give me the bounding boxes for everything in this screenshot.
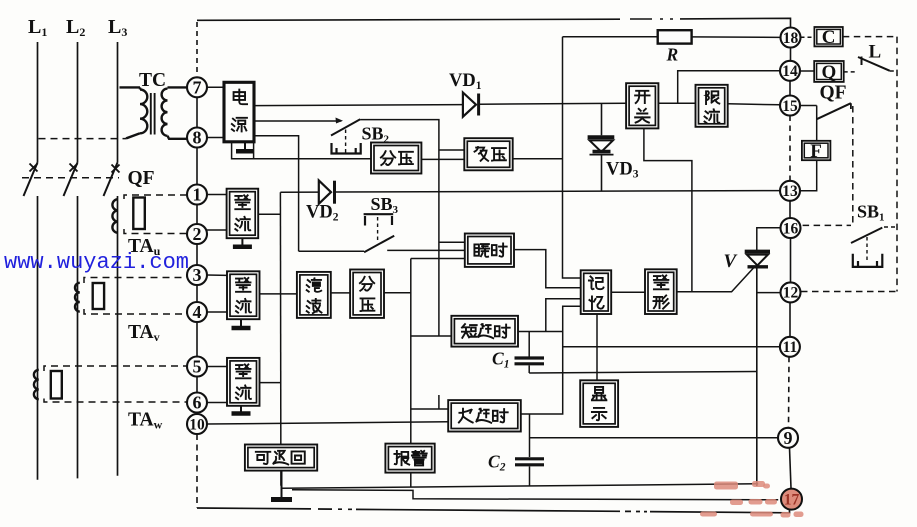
- svg-text:4: 4: [193, 302, 202, 322]
- wire: rectifier3 output: [260, 382, 281, 384]
- wire: vertical B: [410, 259, 412, 444]
- wire: TA_u dashed to node 1: [124, 195, 186, 199]
- wire: filter to divider2: [331, 292, 350, 294]
- label shaping (zheng): [654, 275, 668, 289]
- svg-text:13: 13: [782, 183, 798, 200]
- wire: C box to corner dashed: [843, 36, 897, 38]
- svg-text:SB1: SB1: [857, 202, 885, 224]
- svg-text:V: V: [724, 251, 738, 272]
- wire: node 11 line: [563, 346, 780, 348]
- breaker QF pole 2 contact x mark: [70, 164, 78, 172]
- block: voltage divider 1 box: [371, 143, 421, 174]
- wire: power to divider1: [232, 143, 371, 159]
- current transformer TA_w winding: [34, 370, 39, 399]
- node 15 terminal circle: [780, 96, 800, 116]
- block: aux contact C box: [814, 27, 842, 46]
- wire: bottom border dash-dot break 1: [318, 508, 352, 510]
- svg-text:TAv: TAv: [128, 322, 160, 344]
- block: rectifier2 box: [227, 271, 260, 319]
- wire: node 16 dashed to SB1: [803, 224, 851, 226]
- block: F box: [802, 141, 831, 160]
- wire: left column segment 2-3: [196, 244, 198, 265]
- wire: node 1 to rectifier1: [207, 194, 227, 196]
- svg-text:QF: QF: [820, 83, 847, 104]
- current transformer TA_v winding: [75, 283, 80, 312]
- svg-text:17: 17: [784, 491, 800, 508]
- block: aux contact Q box: [814, 61, 844, 82]
- svg-text:18: 18: [783, 30, 799, 47]
- svg-text:5: 5: [193, 357, 202, 377]
- wire: thyristor gate: [677, 267, 755, 292]
- pushbutton SB3 blade: [364, 236, 394, 253]
- wire: TA_u dashed to node 2: [124, 229, 186, 234]
- label rectifier2 (zheng): [236, 278, 250, 292]
- label switch (kai): [635, 91, 649, 103]
- wire: Q box dashed right: [844, 71, 857, 73]
- wire: L contact to border dash: [890, 70, 897, 72]
- block: rectifier1 box: [227, 189, 259, 239]
- wire: vertical A upper (SB2 node): [438, 150, 440, 336]
- wire: switch to current-limit: [658, 102, 695, 104]
- wire: left column segment 4-5: [196, 322, 198, 357]
- wire: SB3 to instantaneous box: [387, 249, 465, 251]
- ground below resettable: [281, 471, 283, 500]
- wire: memory to shaping: [611, 291, 645, 293]
- breaker QF linkage dashed: [22, 177, 119, 179]
- wire: undervoltage output: [513, 158, 563, 160]
- node 17 terminal circle (red highlighted): [781, 489, 802, 510]
- wire: outer box left border dashed below node 10: [196, 434, 198, 508]
- wire: node 16 to thyristor: [757, 228, 781, 250]
- svg-text:L3: L3: [108, 16, 127, 39]
- diode VD2: [319, 180, 331, 203]
- wire: right column 15-13 dashed: [789, 116, 791, 181]
- current transformer TA_u winding: [112, 199, 118, 233]
- wire: thyristor to node 12: [757, 292, 781, 294]
- node 1 terminal circle: [187, 185, 207, 205]
- svg-text:16: 16: [783, 220, 799, 237]
- label display (xian): [592, 387, 606, 400]
- wire: rectifier1 output: [258, 213, 280, 215]
- wire: QF aux dashed down: [852, 106, 854, 225]
- svg-text:VD3: VD3: [606, 160, 639, 181]
- wire: power output to SB2: [255, 120, 341, 122]
- svg-text:3: 3: [193, 265, 202, 285]
- node 2 terminal circle: [187, 224, 207, 244]
- wire: vertical A tee to instantaneous: [439, 241, 465, 243]
- svg-text:11: 11: [783, 339, 798, 356]
- label alarm (jing): [412, 451, 427, 465]
- wire: left column segment 7-8: [196, 97, 198, 127]
- wire: R to node 18: [692, 36, 780, 39]
- svg-text:TC: TC: [139, 70, 166, 91]
- svg-text:6: 6: [193, 393, 202, 413]
- ground below rectifier2: [240, 319, 242, 328]
- contact QF aux blade: [817, 103, 851, 119]
- label display (shi2): [592, 408, 606, 420]
- node 3 terminal circle: [187, 265, 207, 285]
- svg-text:F: F: [810, 141, 822, 162]
- label long-delay (yan): [476, 409, 491, 423]
- wire: rectifier2 to filter: [260, 293, 297, 295]
- wire: left column segment 6-10: [196, 413, 198, 415]
- wire: C1 bottom line to thyristor cathode: [529, 372, 757, 374]
- wire: vertical A lower stub: [411, 395, 448, 409]
- wire: right dashed border: [896, 37, 898, 292]
- wire: VD1 to switch box: [479, 102, 626, 105]
- wire: divider1 to undervoltage box: [421, 158, 464, 160]
- label undervoltage (ya): [492, 148, 506, 161]
- wire: phase L3 lower: [117, 196, 119, 476]
- wire: outer box bottom border left part: [197, 507, 311, 510]
- wire: right column 18-14: [790, 48, 792, 61]
- wire: right column 11-9 dashed: [788, 357, 791, 428]
- wire: TA_v dashed to node 4: [84, 309, 187, 314]
- resistor R: [658, 30, 692, 43]
- wire: power output to VD1: [255, 105, 462, 106]
- wire: SB1 dashed to border: [884, 226, 897, 228]
- label switch (guan): [635, 109, 649, 123]
- svg-text:C1: C1: [492, 349, 509, 371]
- wire: left column segment 1-2: [196, 205, 198, 225]
- wire: TA_v dashed to node 3: [84, 276, 187, 284]
- wire: left column segment 5-6: [196, 377, 198, 393]
- ground below rectifier3: [240, 406, 242, 414]
- wire: 9-wire with C2 stem: [530, 414, 780, 457]
- wire: alarm bottom stub: [410, 473, 412, 487]
- svg-text:TAw: TAw: [128, 410, 163, 432]
- wire: left column segment 3-4: [196, 285, 198, 302]
- wire: R line left: [563, 36, 658, 38]
- wire: vertical A tee to undervoltage: [439, 149, 464, 151]
- ground below rectifier1: [241, 238, 243, 247]
- svg-text:7: 7: [193, 78, 202, 98]
- wire: short-delay to memory link: [546, 299, 581, 332]
- node 14 terminal circle: [780, 61, 800, 81]
- label long-delay (shi): [493, 409, 508, 422]
- label divider1 (ya): [399, 152, 413, 165]
- svg-text:14: 14: [782, 63, 798, 80]
- label divider2 (ya): [361, 298, 375, 311]
- transformer TC secondary winding: [162, 87, 187, 138]
- svg-text:1: 1: [193, 185, 202, 205]
- breaker QF pole 1 contact x mark: [30, 164, 38, 172]
- node 10 terminal circle: [187, 414, 207, 434]
- transformer TC primary winding: [120, 87, 148, 138]
- wire: node 5 to rectifier3: [207, 366, 227, 368]
- wire: bottom bus: [281, 484, 758, 489]
- label limit (liu): [705, 109, 720, 123]
- wire: phase L1 upper: [37, 42, 39, 163]
- wire: phase L1 lower: [37, 196, 39, 480]
- label rectifier1 (liu): [235, 217, 250, 231]
- current transformer TA_w secondary rect: [51, 371, 62, 399]
- wire: outer box top border (solid with dash-dot break): [197, 19, 620, 20]
- contact SB1 blade: [851, 228, 882, 243]
- wire: right column 12-11: [789, 302, 791, 336]
- breaker QF pole 2 blade: [64, 163, 78, 197]
- block: alarm box: [385, 444, 434, 473]
- svg-text:Q: Q: [822, 62, 837, 83]
- node 18 terminal circle: [781, 28, 801, 48]
- wire: left column segment 8-1: [196, 148, 198, 185]
- label short-delay (shi): [495, 325, 510, 338]
- wire: R-line vertical (undervoltage to memory): [563, 37, 581, 278]
- svg-text:VD1: VD1: [449, 71, 482, 92]
- block: instantaneous box: [465, 234, 514, 267]
- diode VD1: [463, 93, 476, 117]
- block: shaping box: [645, 269, 677, 314]
- wire: TA_w dashed to node 5: [44, 366, 187, 371]
- transformer TC core: [150, 93, 152, 135]
- label short-delay (yan): [478, 324, 493, 338]
- label resettable (ke): [256, 452, 270, 464]
- block: current limit box: [696, 85, 728, 127]
- label instantaneous (shun): [474, 244, 489, 257]
- svg-text:L2: L2: [66, 16, 85, 39]
- svg-text:10: 10: [189, 416, 205, 433]
- pushbutton SB3 actuator: [364, 214, 394, 225]
- label memory (yi): [589, 296, 603, 309]
- label divider2 (fen): [360, 277, 374, 291]
- wire: node 3 to rectifier2: [207, 274, 227, 276]
- wire: memory to display stem: [596, 314, 598, 380]
- label undervoltage (qian): [475, 147, 489, 161]
- pushbutton SB3 dashed link: [377, 217, 379, 242]
- label instantaneous (shi): [492, 243, 507, 256]
- wire: power to SB3 vertical: [255, 136, 298, 252]
- wire: node 18 to C box dashed: [801, 36, 815, 38]
- pushbutton SB2 actuator: [332, 143, 361, 154]
- wire: node 4 to rectifier2: [207, 311, 227, 313]
- svg-text:L: L: [869, 42, 882, 63]
- label rectifier3 (zheng): [236, 364, 250, 378]
- wire: F vertical upper: [816, 106, 818, 141]
- wire: switch control from shaping line: [644, 128, 692, 291]
- svg-text:8: 8: [193, 128, 202, 148]
- pushbutton SB1 dashed link: [866, 237, 868, 262]
- wire: vertical B corner to instantaneous: [411, 258, 465, 260]
- node 8 terminal circle: [187, 128, 207, 148]
- block: long delay box: [448, 400, 521, 431]
- label filter (lv): [307, 278, 321, 292]
- block: voltage divider 2 box: [350, 270, 384, 318]
- label short-delay (duan): [462, 324, 477, 338]
- node 7 terminal circle: [187, 77, 207, 97]
- svg-text:VD2: VD2: [306, 203, 339, 224]
- contact L blade: [861, 57, 863, 66]
- wire: node 12 dashed to border: [801, 291, 897, 293]
- node 5 terminal circle: [187, 357, 207, 377]
- label rectifier1 (zheng): [235, 195, 249, 209]
- diode VD3 stack: [601, 103, 603, 135]
- wire: ground-17 line: [292, 490, 778, 500]
- wire: long-delay output: [521, 306, 581, 414]
- node 12 terminal circle: [781, 282, 801, 302]
- wire: node 7 to power box: [207, 86, 223, 88]
- thyristor V: [745, 250, 770, 254]
- wire: node 6 to rectifier3: [207, 402, 227, 404]
- wire: dashed TC primary to L1: [39, 138, 127, 140]
- label long-delay (chang): [459, 409, 473, 423]
- wire: outer box left border dashed above node 7: [196, 22, 198, 76]
- wire: bottom border dash-dot break 2: [625, 510, 647, 512]
- wire: SB3 left lead: [299, 250, 365, 252]
- wire: node 2 to rectifier1: [207, 229, 227, 231]
- breaker QF pole 1 blade: [24, 163, 38, 197]
- svg-text:www.wuyazi.com: www.wuyazi.com: [4, 249, 189, 275]
- wire: short-delay input: [411, 335, 452, 337]
- wire: phase L2 lower: [77, 196, 79, 478]
- wire: right column 14-15: [789, 81, 791, 96]
- block: undervoltage box: [464, 138, 512, 170]
- svg-text:R: R: [666, 45, 679, 65]
- label resettable (hui): [292, 451, 305, 463]
- wire: phase L3 upper: [117, 42, 119, 163]
- svg-text:SB3: SB3: [371, 194, 399, 216]
- wire: 14 to switch-limit wire: [678, 71, 780, 104]
- wire: outer box bottom border mid part: [356, 509, 620, 511]
- wire: SB2 to vertical A: [360, 120, 439, 150]
- wire: divider2 output to vertical B: [384, 292, 411, 294]
- node 6 terminal circle: [187, 393, 207, 413]
- current transformer TA_v secondary rect: [93, 283, 104, 309]
- block: filter box: [297, 272, 331, 318]
- wire: phase L2 upper: [77, 42, 79, 163]
- node 13 terminal circle: [780, 181, 800, 201]
- svg-text:2: 2: [193, 224, 202, 244]
- wire: short-delay output: [518, 331, 563, 333]
- label filter (bo): [307, 299, 322, 313]
- wire: right column 16-12: [790, 238, 792, 282]
- capacitor C2: [515, 457, 544, 460]
- svg-text:QF: QF: [128, 168, 155, 189]
- label memory (ji): [589, 276, 604, 289]
- red watermark dashes (decor overlay near node 17): [714, 482, 738, 490]
- wire: current-limit to node 15: [728, 104, 780, 105]
- block: resettable box: [245, 445, 317, 471]
- node 16 terminal circle: [781, 218, 801, 238]
- node 11 terminal circle: [780, 337, 800, 357]
- block: memory box: [581, 270, 612, 314]
- pushbutton SB1 actuator: [853, 254, 883, 267]
- label rectifier3 (liu): [236, 385, 251, 399]
- label power supply (yuan): [232, 118, 247, 132]
- label rectifier2 (liu): [236, 299, 251, 313]
- wire: TA_w dashed to node 6: [44, 399, 187, 403]
- label limit (xian2): [706, 91, 719, 104]
- wire: VD2 anode vertical: [279, 192, 282, 486]
- wire: instantaneous output: [514, 250, 581, 288]
- label shaping (xing): [653, 295, 668, 308]
- ground below power box: [244, 142, 246, 151]
- label power supply (dian): [234, 90, 247, 105]
- block: short delay box: [451, 316, 518, 347]
- svg-text:C2: C2: [488, 452, 506, 474]
- wire: node 10 to long-delay box: [207, 422, 449, 424]
- wire: node 15 to F vertical: [800, 105, 817, 107]
- current transformer TA_u secondary rect: [133, 198, 145, 230]
- block: power supply box: [224, 82, 254, 142]
- block: rectifier3 box: [227, 358, 260, 406]
- wire: right column 9-17: [790, 448, 792, 488]
- pushbutton SB2 blade: [331, 119, 360, 135]
- svg-text:12: 12: [783, 285, 799, 302]
- wire: node 14 to Q box: [800, 70, 814, 72]
- breaker QF pole 3 contact x mark: [112, 165, 120, 173]
- label alarm (bao): [394, 451, 409, 465]
- wire: F vertical lower to node 13: [801, 160, 817, 191]
- wire: long 13 line: [280, 191, 318, 193]
- label resettable (fan): [273, 451, 288, 465]
- breaker QF pole 3 blade: [104, 163, 118, 197]
- svg-text:9: 9: [784, 428, 793, 448]
- capacitor C1: [528, 332, 530, 357]
- wire: node 8 to power box: [207, 137, 223, 139]
- pushbutton SB2 dashed link: [345, 130, 347, 153]
- svg-text:15: 15: [782, 98, 798, 115]
- svg-text:L1: L1: [28, 16, 47, 39]
- block: display box: [580, 380, 618, 427]
- wire: outer box bottom border right part: [650, 507, 790, 513]
- wire: right column 13-16: [789, 201, 791, 218]
- node 9 terminal circle: [778, 428, 798, 448]
- label divider1 (fen): [381, 151, 395, 165]
- block: switch box: [626, 83, 658, 128]
- svg-text:C: C: [822, 27, 836, 48]
- node 4 terminal circle: [187, 302, 207, 322]
